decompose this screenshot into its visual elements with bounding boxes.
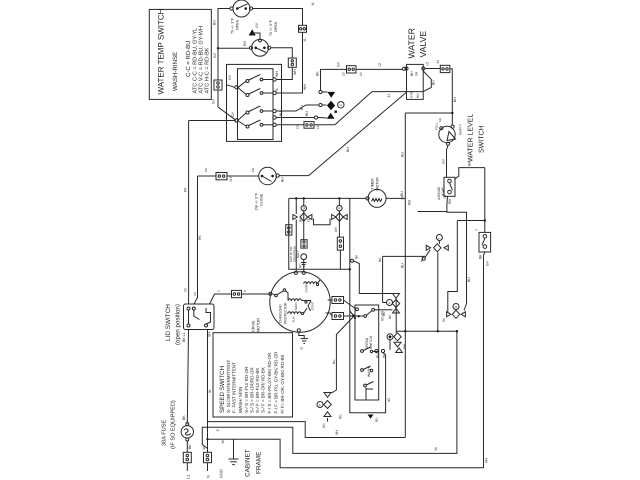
terminal C1 bbox=[235, 86, 238, 89]
svg-text:N: N bbox=[206, 475, 211, 478]
svg-text:BU: BU bbox=[299, 217, 303, 222]
speed switch bank box bbox=[355, 305, 379, 400]
svg-text:YL: YL bbox=[303, 38, 307, 42]
svg-text:BK: BK bbox=[468, 161, 472, 166]
connector CO4 bbox=[296, 122, 321, 129]
svg-text:GY: GY bbox=[486, 260, 490, 266]
svg-text:ATC V-C = RD-BU, GY-WH: ATC V-C = RD-BU, GY-WH bbox=[199, 26, 205, 94]
svg-text:(GAP): (GAP) bbox=[441, 187, 445, 196]
wire to T2 left bbox=[218, 47, 249, 49]
connector CO8 bbox=[232, 289, 248, 298]
svg-text:BU: BU bbox=[305, 111, 309, 116]
node branch 14 bbox=[451, 112, 453, 114]
right drop to tumbler bbox=[484, 168, 486, 233]
wire pressure bottom left stub bbox=[418, 196, 448, 211]
svg-text:G: G bbox=[300, 347, 304, 350]
svg-text:WH: WH bbox=[293, 69, 297, 75]
svg-text:BU: BU bbox=[382, 311, 386, 316]
component rail left drop bbox=[289, 198, 350, 269]
svg-text:ONLY: ONLY bbox=[296, 250, 300, 258]
wire lid bottom-left to fuse bbox=[187, 330, 188, 424]
svg-text:GY: GY bbox=[213, 52, 217, 58]
small dot bbox=[335, 111, 337, 113]
wire cap to motor bbox=[303, 260, 305, 272]
svg-text:FULL: FULL bbox=[435, 122, 439, 130]
svg-text:BU: BU bbox=[400, 152, 404, 157]
svg-text:YL: YL bbox=[275, 88, 279, 92]
svg-text:GY: GY bbox=[228, 74, 232, 80]
terminal YL bbox=[273, 91, 276, 94]
svg-text:EMPTY: EMPTY bbox=[459, 123, 463, 135]
switch contact 4 bbox=[238, 120, 273, 128]
svg-text:GY: GY bbox=[212, 98, 216, 104]
wire CO6 down right bus bbox=[450, 69, 453, 125]
wire CO5 to valve bbox=[356, 68, 402, 70]
svg-text:43: 43 bbox=[387, 398, 391, 402]
connector CO1 bbox=[214, 80, 222, 90]
thermostat T2 76F bbox=[249, 19, 278, 56]
svg-text:BU: BU bbox=[279, 111, 283, 116]
wire branch to center bus bbox=[405, 112, 452, 114]
start winding bbox=[304, 280, 321, 293]
svg-text:VH: VH bbox=[208, 332, 212, 337]
aux winding bbox=[288, 308, 308, 323]
svg-text:ATC H-C = RD-BK: ATC H-C = RD-BK bbox=[205, 47, 211, 93]
center bus vertical bbox=[404, 113, 406, 438]
connector CO12 bbox=[332, 297, 344, 304]
connector CO10 vertical bbox=[301, 240, 307, 248]
switch contact 1 bbox=[238, 75, 273, 88]
terminal 5 bbox=[273, 123, 276, 126]
node N junction bbox=[206, 438, 208, 440]
wire junction y331 bbox=[396, 330, 457, 332]
svg-text:41: 41 bbox=[387, 94, 391, 98]
svg-text:W: W bbox=[302, 206, 306, 209]
wire aux branch down bbox=[332, 317, 354, 394]
solenoid cluster C_G bbox=[317, 393, 331, 429]
svg-text:S- SLOW INTERMITTENT: S- SLOW INTERMITTENT bbox=[226, 360, 231, 413]
svg-text:SWITCH: SWITCH bbox=[479, 125, 486, 153]
svg-text:GY: GY bbox=[255, 22, 259, 28]
wire fuse to plug L1 bbox=[186, 441, 188, 452]
svg-text:S-/ F = BR-PU/ RD-BK: S-/ F = BR-PU/ RD-BK bbox=[255, 368, 260, 413]
svg-text:RD: RD bbox=[243, 40, 247, 46]
svg-text:BK L1: BK L1 bbox=[182, 332, 186, 342]
second vertical to lid bbox=[194, 176, 198, 304]
solenoid cluster C_D bbox=[442, 304, 467, 323]
svg-text:BU: BU bbox=[376, 353, 380, 358]
svg-text:BK: BK bbox=[182, 415, 186, 420]
wire path C speed bottom bbox=[208, 422, 406, 438]
wire lid bottom-right down bbox=[207, 330, 209, 453]
spin solenoid column B bbox=[332, 197, 348, 237]
motor ground bbox=[299, 332, 308, 350]
svg-text:PK: PK bbox=[184, 187, 188, 192]
connector CO2 bbox=[299, 25, 307, 32]
svg-text:13: 13 bbox=[296, 125, 300, 129]
svg-text:1: 1 bbox=[217, 290, 221, 292]
node j331c bbox=[404, 330, 406, 332]
svg-text:PROTECTOR: PROTECTOR bbox=[284, 302, 288, 324]
junction arrow bbox=[368, 415, 374, 419]
svg-text:WH: WH bbox=[403, 343, 407, 349]
node cold bbox=[319, 103, 322, 106]
main winding bbox=[288, 299, 315, 311]
valve outlet bracket bbox=[423, 71, 435, 92]
svg-text:F-/ F = BR-PU, GY-BK/ RD-OR: F-/ F = BR-PU, GY-BK/ RD-OR bbox=[274, 351, 279, 414]
wire motor right to CO12 bbox=[328, 299, 332, 301]
svg-text:VALVE: VALVE bbox=[418, 31, 428, 58]
wire hot valve feed bbox=[321, 69, 347, 90]
svg-text:BH: BH bbox=[410, 71, 414, 76]
solenoid diamond A bbox=[300, 213, 308, 221]
svg-text:S: S bbox=[338, 207, 342, 209]
svg-text:OPEN: OPEN bbox=[274, 21, 278, 32]
solenoid diamond cold bbox=[327, 101, 335, 111]
svg-text:S-/ F = BR-OR/ RD-BK: S-/ F = BR-OR/ RD-BK bbox=[261, 367, 266, 413]
timer motor M1 bbox=[368, 177, 386, 208]
svg-text:F-/ S = BR-PK,GY-BK/ RD-OR: F-/ S = BR-PK,GY-BK/ RD-OR bbox=[267, 352, 272, 413]
svg-text:BK: BK bbox=[479, 254, 483, 259]
wire CO4 diagonal to valve hot bbox=[314, 92, 407, 125]
node j331b bbox=[456, 330, 458, 332]
wire agitate top drop bbox=[383, 255, 425, 257]
svg-text:WATER LEVEL: WATER LEVEL bbox=[468, 114, 475, 162]
svg-text:C-C = RD-BU: C-C = RD-BU bbox=[185, 40, 192, 77]
bank contact 2 bbox=[361, 347, 378, 353]
solenoid cluster agitate bbox=[378, 256, 400, 319]
svg-text:6 RD: 6 RD bbox=[410, 90, 414, 98]
svg-text:OVERLOAD: OVERLOAD bbox=[279, 304, 283, 323]
bank contact 3 bbox=[361, 366, 373, 372]
svg-text:GY: GY bbox=[442, 158, 446, 164]
svg-text:BU: BU bbox=[400, 191, 404, 196]
bank contact 1 bbox=[356, 308, 379, 318]
svg-text:34: 34 bbox=[436, 60, 440, 64]
wire spin feed to drain solenoid bbox=[448, 221, 458, 313]
svg-text:T: T bbox=[438, 237, 442, 239]
terminal 3 bbox=[273, 109, 276, 112]
wire right bus down bbox=[276, 32, 302, 93]
ATC sensor arrow bbox=[249, 22, 262, 42]
svg-text:BU: BU bbox=[213, 20, 217, 25]
arrow left A bbox=[308, 215, 312, 220]
node bank feed bbox=[352, 314, 355, 317]
wire path A bbox=[202, 331, 457, 453]
wire T1 right to right bus bbox=[253, 9, 303, 26]
svg-text:CABINET: CABINET bbox=[245, 449, 252, 477]
water valve box bbox=[405, 64, 425, 99]
node j331a bbox=[437, 330, 439, 332]
svg-text:GY: GY bbox=[229, 176, 233, 182]
svg-text:PK: PK bbox=[198, 235, 202, 240]
node T2 feed bbox=[217, 47, 219, 49]
svg-text:13: 13 bbox=[316, 125, 320, 129]
svg-text:SPEED SWITCH: SPEED SWITCH bbox=[219, 366, 226, 413]
water level switch bbox=[435, 117, 463, 145]
svg-text:BK: BK bbox=[316, 71, 320, 76]
svg-text:L1: L1 bbox=[185, 474, 190, 479]
wire w-feed to agitate bbox=[353, 261, 392, 294]
svg-text:BU: BU bbox=[420, 257, 424, 262]
wire C_C drop bbox=[437, 253, 439, 332]
svg-text:SWITCH: SWITCH bbox=[369, 335, 373, 349]
svg-text:(open position): (open position) bbox=[175, 304, 182, 345]
svg-text:DRIVE: DRIVE bbox=[252, 320, 256, 332]
svg-text:BU: BU bbox=[332, 359, 336, 364]
connector CO3 bbox=[288, 58, 296, 67]
svg-text:GND: GND bbox=[219, 469, 224, 478]
svg-text:F/ F= BR-OR, GY-BK/ RD-BK: F/ F= BR-OR, GY-BK/ RD-BK bbox=[280, 355, 285, 414]
terminal WH bbox=[273, 78, 276, 81]
wire T2 right to CO3 bbox=[271, 48, 293, 58]
wire cap column top bbox=[303, 198, 305, 205]
svg-text:RD: RD bbox=[382, 353, 386, 358]
svg-text:RD: RD bbox=[416, 93, 420, 98]
svg-text:12: 12 bbox=[378, 63, 382, 67]
svg-text:WH: WH bbox=[275, 71, 279, 77]
svg-text:F- FAST INTERMITTENT: F- FAST INTERMITTENT bbox=[232, 362, 237, 413]
wire WLS to pressure switch bbox=[447, 145, 449, 177]
node rail bbox=[349, 268, 351, 270]
svg-text:13: 13 bbox=[359, 72, 363, 76]
overload contacts bbox=[272, 289, 288, 300]
svg-text:BU: BU bbox=[400, 263, 404, 268]
switch contact 2 bbox=[238, 88, 273, 97]
wire motor aux to CO13 bbox=[326, 313, 333, 316]
fuse F1 bbox=[181, 423, 193, 442]
svg-text:CONT: CONT bbox=[311, 301, 315, 310]
svg-text:ATC C-C = RD-BU, GY-YL: ATC C-C = RD-BU, GY-YL bbox=[193, 28, 199, 94]
pilot circle W bbox=[301, 206, 306, 211]
svg-text:LID SWITCH: LID SWITCH bbox=[165, 304, 172, 341]
wire cap column bbox=[303, 211, 305, 240]
svg-text:(IF SO EQUIPPED): (IF SO EQUIPPED) bbox=[170, 400, 177, 449]
info box SPEED SWITCH bbox=[208, 332, 293, 417]
svg-text:BK: BK bbox=[188, 444, 192, 449]
svg-text:11: 11 bbox=[307, 218, 311, 222]
svg-text:WATER: WATER bbox=[407, 28, 417, 58]
svg-text:13: 13 bbox=[342, 72, 346, 76]
svg-text:WASH/ SPIN: WASH/ SPIN bbox=[238, 387, 243, 413]
svg-text:WASH-RINSE: WASH-RINSE bbox=[172, 52, 179, 91]
svg-text:GY: GY bbox=[231, 111, 235, 117]
timer bus bbox=[289, 197, 366, 199]
wash solenoid W column bbox=[293, 197, 298, 271]
svg-text:34: 34 bbox=[415, 72, 419, 76]
wire bank right 1 bbox=[379, 309, 393, 311]
solenoid cluster C_F bbox=[375, 333, 407, 358]
lid switch box bbox=[184, 304, 215, 330]
connector CO13 bbox=[332, 313, 344, 320]
bank contact 4 bbox=[364, 382, 374, 390]
ground to cabinet bbox=[219, 439, 239, 478]
terminal C2 bbox=[235, 119, 238, 122]
node timer left bbox=[366, 197, 369, 200]
svg-text:BU: BU bbox=[375, 417, 379, 422]
svg-text:START: START bbox=[305, 283, 309, 293]
svg-text:7: 7 bbox=[475, 229, 479, 231]
wire common2 horizontal bbox=[189, 120, 235, 122]
wire corner to CO7 bbox=[198, 175, 217, 177]
svg-text:MAIN: MAIN bbox=[294, 303, 298, 311]
water temp switch inner box bbox=[238, 69, 274, 140]
wire CO3 to terminal WH bbox=[276, 67, 292, 79]
wire L1 stub bbox=[186, 463, 188, 471]
wire N stub bbox=[207, 463, 209, 471]
svg-text:S-/ S = BR-OR/RD-OR: S-/ S = BR-OR/RD-OR bbox=[250, 367, 255, 413]
rail right drop to bank bbox=[350, 198, 386, 412]
water temp switch outer box bbox=[227, 64, 282, 141]
wire T1 left loop bbox=[218, 9, 230, 49]
svg-text:P: P bbox=[318, 404, 322, 406]
svg-text:BH: BH bbox=[432, 80, 436, 85]
svg-text:1A: 1A bbox=[251, 168, 255, 173]
connector CO11 vertical bbox=[337, 237, 343, 250]
svg-text:VH: VH bbox=[485, 458, 489, 463]
svg-text:79 +/- 3°F: 79 +/- 3°F bbox=[231, 17, 235, 34]
pressure switch 4-RINSE bbox=[437, 177, 455, 200]
plug L1 bbox=[183, 452, 191, 462]
svg-text:MOTOR: MOTOR bbox=[257, 318, 261, 332]
connector CO6 bbox=[436, 60, 450, 73]
svg-text:BU: BU bbox=[467, 277, 471, 282]
svg-text:BU: BU bbox=[453, 97, 457, 102]
svg-text:30A FUSE: 30A FUSE bbox=[162, 420, 168, 446]
svg-text:BU: BU bbox=[346, 147, 350, 152]
svg-text:BU: BU bbox=[300, 105, 304, 110]
info box WATER TEMP SWITCH bbox=[149, 8, 211, 99]
arrow down hot bbox=[327, 92, 335, 98]
svg-text:FRAME: FRAME bbox=[256, 452, 263, 474]
svg-text:OR: OR bbox=[334, 227, 338, 232]
wire lid to CO8 bbox=[210, 294, 232, 304]
wire pressure top-right to right drop bbox=[455, 168, 485, 179]
wire solenoid stack link bbox=[395, 298, 397, 333]
tumbler switch bbox=[475, 229, 491, 252]
wire valve to CO6 bbox=[425, 68, 440, 70]
switch contact 3 bbox=[238, 106, 273, 120]
wire T3 right diagonal to valve bbox=[279, 93, 406, 176]
pilot circle C bbox=[338, 102, 344, 108]
svg-text:WH: WH bbox=[303, 84, 307, 90]
svg-text:MOTOR: MOTOR bbox=[376, 177, 380, 191]
wire terminal3 to valve cold bbox=[276, 105, 319, 111]
wire T3 left feed bbox=[227, 175, 259, 177]
svg-text:RD: RD bbox=[448, 198, 452, 204]
connector CO5 bbox=[342, 66, 364, 76]
wire left drop to temp switch bbox=[217, 48, 219, 80]
wire CO1 to terminal C bbox=[218, 90, 236, 120]
wire A-path horizontal bbox=[457, 220, 485, 222]
jumper A to B bbox=[314, 219, 331, 225]
svg-text:TIMER: TIMER bbox=[371, 178, 375, 190]
solenoid cluster C_C bbox=[420, 235, 448, 263]
wire tumbler bottom down bbox=[484, 252, 485, 468]
node A-path top bbox=[484, 219, 486, 221]
wire pressure bottom to drain drop bbox=[447, 212, 467, 304]
svg-text:13: 13 bbox=[426, 62, 430, 66]
svg-text:BU: BU bbox=[281, 177, 285, 182]
svg-text:A: A bbox=[388, 302, 392, 304]
drive motor bbox=[252, 271, 331, 332]
connector CO7 bbox=[204, 167, 227, 180]
wire up to C_C bbox=[425, 250, 430, 258]
thermostat T3 DB close bbox=[255, 167, 280, 210]
svg-text:YL: YL bbox=[311, 2, 315, 6]
svg-text:CLOSE: CLOSE bbox=[260, 193, 264, 206]
svg-text:OPEN: OPEN bbox=[236, 19, 240, 30]
valve inlet node bbox=[402, 67, 405, 70]
wire timer to center bus bbox=[386, 197, 405, 199]
wire jog to common 1 bbox=[227, 85, 235, 88]
svg-text:GY: GY bbox=[337, 61, 341, 67]
node hot bbox=[319, 90, 322, 93]
capacitor bbox=[289, 246, 307, 266]
wire CO12 to bank bbox=[344, 300, 356, 309]
svg-text:RD: RD bbox=[299, 263, 303, 268]
wire terminal4 bbox=[276, 117, 314, 119]
svg-text:S-/ S = BR-PU/ RD-OR: S-/ S = BR-PU/ RD-OR bbox=[244, 366, 249, 413]
wire terminal5 to CO4 bbox=[276, 124, 304, 126]
svg-text:WATER TEMP SWITCH: WATER TEMP SWITCH bbox=[157, 8, 166, 94]
wire path B bbox=[208, 439, 484, 468]
wire CO13 to bank bbox=[344, 315, 357, 317]
thermostat T1 79F bbox=[230, 0, 253, 34]
terminal 4 bbox=[273, 116, 276, 119]
svg-text:76 +/- 5°F: 76 +/- 5°F bbox=[269, 19, 273, 36]
arrow up bbox=[327, 113, 335, 119]
wire node to diamond bbox=[322, 104, 326, 106]
svg-text:RD: RD bbox=[408, 199, 412, 205]
connector CO9 vertical bbox=[286, 225, 292, 235]
svg-text:RD: RD bbox=[339, 414, 343, 419]
wire CO11 down bbox=[339, 250, 341, 269]
svg-text:WASH: WASH bbox=[367, 367, 371, 377]
wire CO8 to motor bbox=[242, 293, 271, 295]
node t4 bbox=[314, 116, 317, 119]
left long vertical PK bbox=[188, 121, 190, 305]
svg-text:DB +/- 5°F: DB +/- 5°F bbox=[255, 192, 259, 210]
svg-text:RD: RD bbox=[322, 423, 326, 428]
plug N bbox=[202, 446, 212, 463]
wire bank bottom drop bbox=[365, 388, 367, 400]
svg-text:VH: VH bbox=[335, 430, 339, 435]
svg-text:AUX: AUX bbox=[292, 316, 296, 322]
